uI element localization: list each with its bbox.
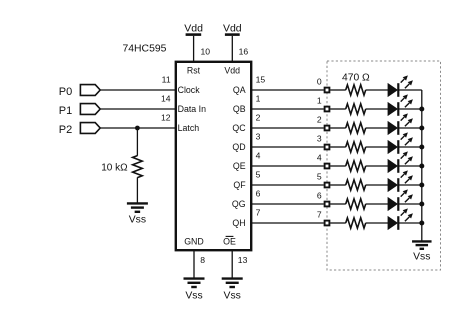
svg-text:74HC595: 74HC595	[123, 44, 167, 55]
ground Vss (LED module)	[412, 240, 432, 242]
svg-text:QF: QF	[233, 180, 246, 190]
wire LED D6 to cathode bus	[398, 203, 422, 205]
wire QD to node 3	[251, 146, 323, 148]
svg-text:10: 10	[201, 47, 211, 57]
wire node 5 to resistor R5	[330, 184, 346, 186]
wire resistor R2 to LED D2	[366, 127, 388, 129]
svg-text:Clock: Clock	[178, 85, 201, 95]
svg-text:3: 3	[256, 132, 261, 142]
svg-text:QE: QE	[233, 161, 246, 171]
svg-text:10 kΩ: 10 kΩ	[101, 162, 128, 173]
resistor 10 k&#937; (pull-down)	[133, 156, 143, 178]
wire GND pin 8 to ground	[193, 250, 195, 278]
svg-text:6: 6	[256, 189, 261, 199]
svg-text:Vss: Vss	[413, 252, 430, 263]
wire QH to node 7	[251, 222, 323, 224]
svg-text:2: 2	[317, 114, 322, 124]
resistor R6 470 &#937;	[346, 199, 366, 209]
svg-text:Vss: Vss	[185, 291, 202, 302]
resistor R7 470 &#937;	[346, 218, 366, 228]
svg-text:13: 13	[238, 255, 248, 265]
junction dot row 2 on bus	[419, 126, 424, 131]
junction dot row 5 on bus	[419, 183, 424, 188]
ground Vss (pin 8)	[184, 277, 205, 279]
wire LED D5 to cathode bus	[398, 184, 422, 186]
junction dot row 6 on bus	[419, 202, 424, 207]
wire P0 to IC pin 11	[100, 89, 175, 91]
wire LED D0 to cathode bus	[398, 89, 422, 91]
wire resistor R5 to LED D5	[366, 184, 388, 186]
svg-text:Vss: Vss	[224, 291, 241, 302]
resistor R1 470 &#937;	[346, 104, 366, 114]
svg-text:5: 5	[317, 171, 322, 181]
svg-text:4: 4	[256, 151, 261, 161]
resistor R4 470 &#937;	[346, 161, 366, 171]
svg-text:Vdd: Vdd	[224, 66, 240, 76]
svg-text:QG: QG	[232, 199, 246, 209]
svg-text:6: 6	[317, 190, 322, 200]
resistor R3 470 &#937;	[346, 142, 366, 152]
LED D0	[388, 84, 397, 97]
wire resistor R1 to LED D1	[366, 108, 388, 110]
junction node on P2/Latch wire	[135, 126, 140, 131]
svg-text:QD: QD	[232, 142, 245, 152]
svg-text:4: 4	[317, 152, 322, 162]
svg-text:QA: QA	[233, 85, 246, 95]
resistor R2 470 &#937;	[346, 123, 366, 133]
svg-text:11: 11	[162, 75, 171, 85]
svg-text:2: 2	[256, 113, 261, 123]
junction dot row 1 on bus	[419, 107, 424, 112]
LED D2	[388, 122, 397, 135]
wire P2 to IC pin 12	[100, 127, 175, 129]
port P2 connector symbol	[80, 123, 100, 134]
svg-text:14: 14	[161, 94, 171, 104]
wire QG to node 6	[251, 203, 323, 205]
svg-text:Latch: Latch	[178, 123, 200, 133]
wire resistor R0 to LED D0	[366, 89, 388, 91]
wire cathode bus	[421, 90, 423, 223]
wire node 0 to resistor R0	[330, 89, 346, 91]
svg-text:GND: GND	[184, 236, 204, 246]
port P0 connector symbol	[80, 85, 100, 96]
ground Vss (pull-down)	[127, 202, 148, 204]
LED D5	[388, 179, 397, 192]
wire Vdd to pin 10	[193, 36, 195, 62]
LED D3	[388, 141, 397, 154]
wire node 3 to resistor R3	[330, 146, 346, 148]
wire node 4 to resistor R4	[330, 165, 346, 167]
svg-text:3: 3	[317, 133, 322, 143]
wire node 1 to resistor R1	[330, 108, 346, 110]
svg-text:QH: QH	[232, 218, 245, 228]
wire node 6 to resistor R6	[330, 203, 346, 205]
svg-text:QB: QB	[233, 104, 246, 114]
wire LED D3 to cathode bus	[398, 146, 422, 148]
svg-text:P2: P2	[59, 124, 72, 136]
svg-text:15: 15	[256, 75, 266, 85]
svg-text:16: 16	[239, 47, 249, 57]
svg-text:12: 12	[161, 113, 171, 123]
junction dot row 7 on bus	[419, 221, 424, 226]
svg-text:1: 1	[256, 94, 261, 104]
LED D1	[388, 103, 397, 116]
wire QC to node 2	[251, 127, 323, 129]
wire bus to module ground	[421, 223, 423, 241]
svg-text:QC: QC	[232, 123, 246, 133]
svg-text:7: 7	[256, 208, 261, 218]
wire QB to node 1	[251, 108, 323, 110]
junction dot row 3 on bus	[419, 145, 424, 150]
wire resistor R4 to LED D4	[366, 165, 388, 167]
dashed LED-module box	[327, 61, 441, 270]
wire QA to node 0	[251, 89, 323, 91]
wire node 7 to resistor R7	[330, 222, 346, 224]
wire LED D4 to cathode bus	[398, 165, 422, 167]
IC U1 74HC595 body	[176, 62, 251, 250]
wire LED D7 to cathode bus	[398, 222, 422, 224]
svg-text:Vss: Vss	[129, 214, 146, 225]
ground Vss (pin 13)	[222, 277, 243, 279]
svg-text:7: 7	[317, 209, 322, 219]
wire OE pin 13 to ground	[231, 250, 233, 278]
wire node 2 to resistor R2	[330, 127, 346, 129]
svg-text:Vdd: Vdd	[223, 23, 242, 35]
svg-text:5: 5	[256, 170, 261, 180]
wire resistor R6 to LED D6	[366, 203, 388, 205]
svg-text:8: 8	[200, 255, 205, 265]
svg-text:Rst: Rst	[187, 66, 201, 76]
LED D7	[388, 217, 397, 230]
junction dot row 4 on bus	[419, 164, 424, 169]
resistor R0 470 &#937;	[346, 85, 366, 95]
wire LED D1 to cathode bus	[398, 108, 422, 110]
LED D6	[388, 198, 397, 211]
wire resistor to ground	[136, 177, 138, 203]
wire resistor R3 to LED D3	[366, 146, 388, 148]
wire P1 to IC pin 14	[100, 108, 175, 110]
resistor R5 470 &#937;	[346, 180, 366, 190]
svg-text:P0: P0	[59, 86, 72, 98]
svg-text:0: 0	[317, 76, 322, 86]
wire QE to node 4	[251, 165, 323, 167]
svg-text:470 Ω: 470 Ω	[342, 72, 370, 83]
svg-text:1: 1	[317, 95, 322, 105]
port P1 connector symbol	[80, 104, 100, 115]
wire junction down to resistor	[136, 128, 138, 156]
svg-text:P1: P1	[59, 105, 72, 117]
svg-text:OE: OE	[223, 236, 236, 246]
wire QF to node 5	[251, 184, 323, 186]
wire resistor R7 to LED D7	[366, 222, 388, 224]
wire LED D2 to cathode bus	[398, 127, 422, 129]
svg-text:Data In: Data In	[178, 104, 206, 114]
svg-text:Vdd: Vdd	[184, 23, 203, 35]
wire Vdd to pin 16	[231, 36, 233, 62]
LED D4	[388, 160, 397, 173]
